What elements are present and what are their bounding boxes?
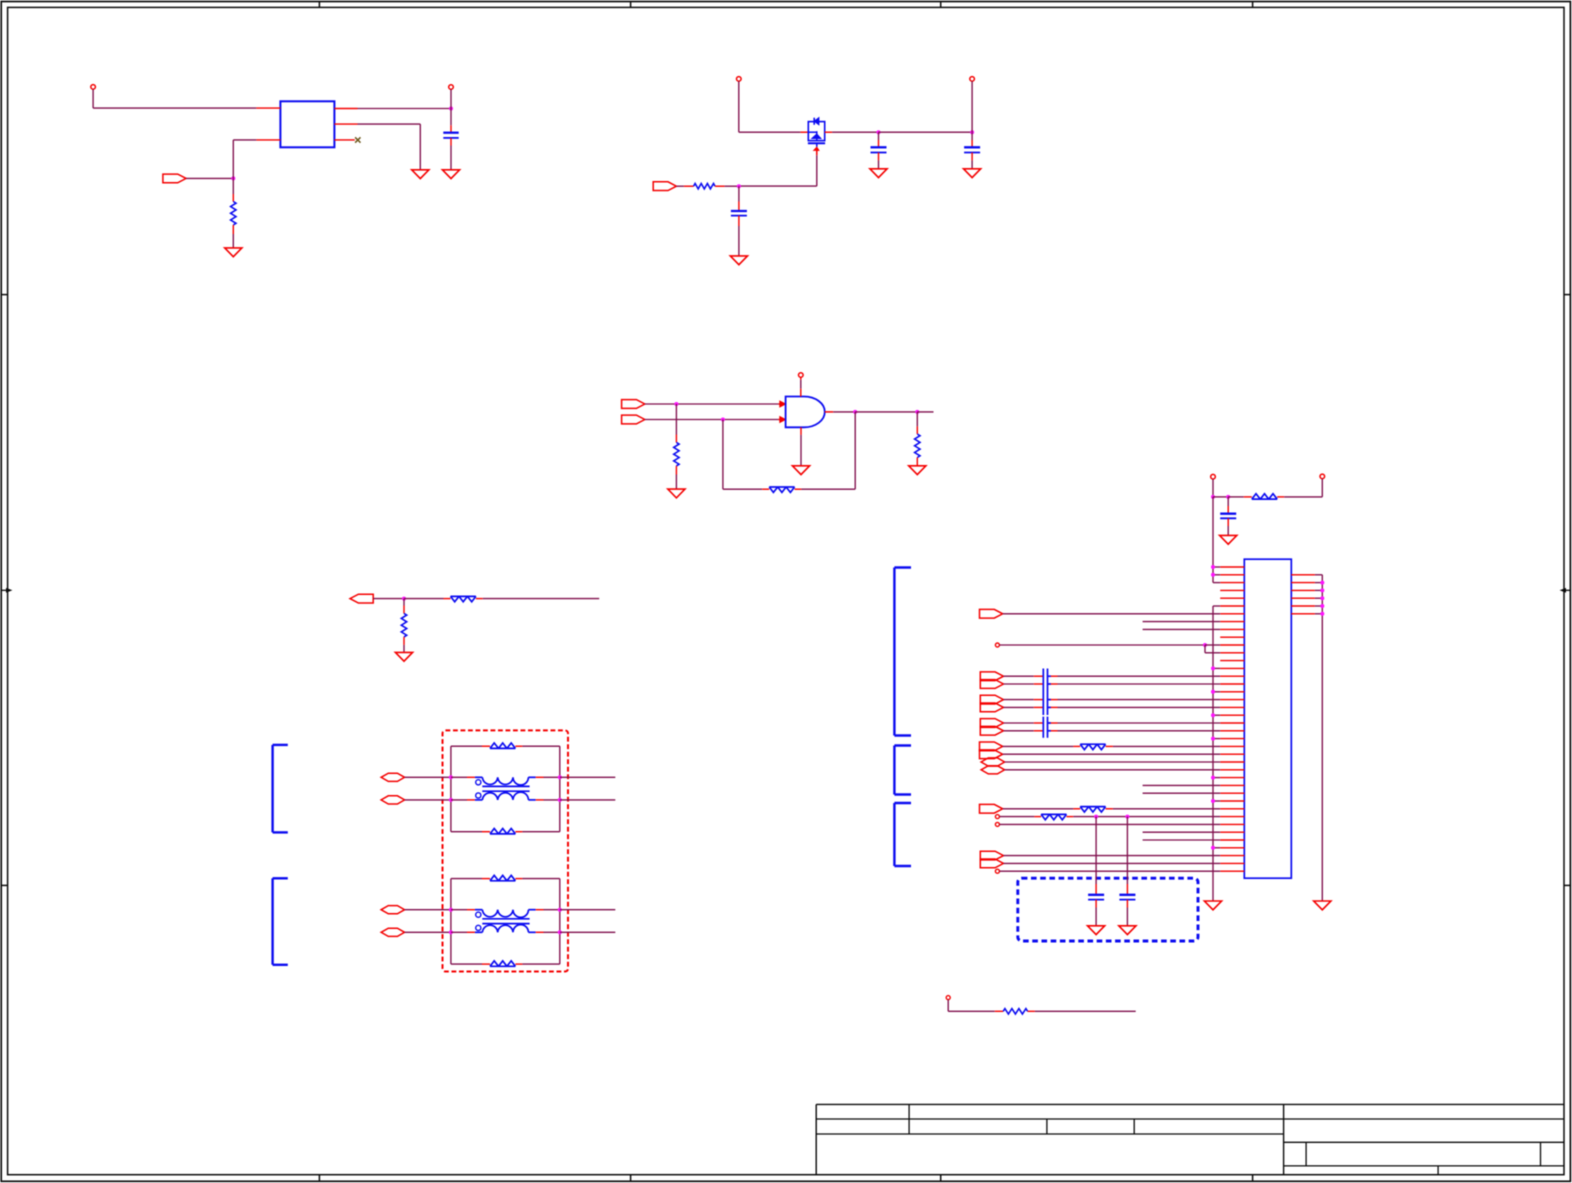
junction dots right rail (1320, 581, 1324, 616)
input port N31 (980, 804, 1003, 813)
input port pair N15 (980, 680, 1003, 689)
junction dots ground bus (1211, 666, 1215, 849)
wire N18 coupled (1004, 706, 1221, 708)
wire T2 top loop (451, 878, 490, 880)
input port S1 (622, 400, 645, 409)
ferrite bead FB3 (1228, 494, 1284, 499)
connector J1 body (1244, 559, 1291, 878)
capacitor C8 (1088, 817, 1104, 926)
capacitor C5 (1220, 497, 1236, 536)
node S2 junction (721, 418, 725, 422)
and gate U2 (786, 397, 825, 428)
input port N6 (980, 609, 1003, 618)
wire T2 right stub A (544, 909, 560, 911)
wire N40 down (948, 1000, 995, 1012)
resistor R6 (995, 1009, 1035, 1014)
node T1 AR (558, 775, 562, 779)
wires right rail taps (1315, 583, 1322, 614)
wire U2 output (825, 411, 855, 413)
wire N26 (1005, 769, 1221, 771)
node R4 junction (915, 410, 919, 414)
J1 right pin stubs (1291, 575, 1315, 614)
series capacitor bank C7 plates (1043, 717, 1047, 738)
wire T2 top loop b (515, 878, 559, 880)
power port P1 (91, 85, 96, 109)
U1 pin out stub (334, 108, 357, 110)
series capacitor bank C6 plates (1043, 669, 1047, 716)
bidir port N25 (981, 758, 1005, 766)
node T2 AR (558, 908, 562, 912)
ferrite bead T1 T (490, 747, 515, 749)
wire T1 bottom loop (451, 831, 490, 833)
input port pair N17 (980, 695, 1003, 704)
ground C2 (870, 169, 887, 178)
wire N17 coupled (1004, 699, 1221, 701)
wire N39 (999, 870, 1220, 872)
Q1 gate arrow (739, 147, 819, 186)
wire N15 coupled (1004, 683, 1221, 685)
input port pair N18 (980, 703, 1003, 712)
U2 power pin (799, 373, 804, 397)
wire P3 to Q1 (739, 131, 809, 133)
wire N28 (1143, 784, 1221, 786)
title block (816, 1104, 1564, 1174)
U1 pin 2 stub (256, 139, 280, 141)
wire T1 out A (560, 776, 616, 778)
input port S2 (622, 415, 645, 424)
ground C3 (964, 169, 981, 178)
power port P5 (1211, 474, 1216, 496)
wire EN1 (186, 177, 233, 179)
wire OUT end (917, 411, 933, 413)
wire T1 A (405, 776, 451, 778)
wire N8 (1143, 628, 1221, 630)
wire N29 (1143, 792, 1221, 794)
wire N38 (1004, 862, 1221, 864)
wire T1 left rail (450, 746, 452, 832)
wire T1 top loop (451, 745, 490, 747)
U1 pin nc stub (334, 139, 354, 141)
wire D_OUT (373, 598, 404, 600)
wire N7 (1143, 621, 1221, 623)
wire N10 to pin 11 (1205, 644, 1220, 646)
wire T1 left stub B (451, 799, 467, 801)
node N32 cap1 junction (1094, 815, 1098, 819)
node T2 BR (558, 930, 562, 934)
U2 input pin 2 (778, 417, 785, 423)
node T2 BL (449, 930, 453, 934)
power port P4 (970, 77, 975, 133)
mosfet Q1 (808, 118, 825, 147)
wire T1 out B (560, 799, 616, 801)
ferrite bead FB4 (1003, 744, 1220, 749)
resistor R2 (676, 184, 739, 189)
blue bracket BR3 (894, 803, 911, 866)
input port pair N38 (980, 859, 1003, 868)
hex port T2 B (381, 928, 405, 936)
resistor R4 (915, 412, 920, 466)
ground right rail (1314, 901, 1331, 910)
node T1 BL (449, 798, 453, 802)
wire S2 to gate (645, 419, 779, 421)
ground C9 (1119, 926, 1136, 935)
wire T2 right rail (559, 879, 561, 965)
net circle N32 (995, 815, 999, 819)
node rail i1 (1211, 573, 1215, 577)
wire N25 (1005, 761, 1221, 763)
wire N37 (1004, 855, 1221, 857)
wire T2 out B (560, 931, 616, 933)
red dashed box transformer module (443, 730, 569, 971)
wires bus taps (1213, 668, 1220, 847)
wire N6 (1003, 613, 1220, 615)
power port P3 (737, 77, 742, 133)
node P5 junction (1211, 495, 1215, 499)
wire T2 left stub A (451, 909, 467, 911)
U1 pin mid stub (334, 123, 357, 125)
wire N33 (999, 823, 1220, 825)
resistor R3 (674, 404, 679, 489)
wire T2 out A (560, 909, 616, 911)
wire power rail left (1213, 497, 1220, 583)
J1 left pin stubs 1-40 (1220, 567, 1244, 871)
capacitor C4 (731, 186, 747, 256)
wire T2 left rail (450, 879, 452, 965)
wire N10 (999, 644, 1205, 646)
input port N24 (980, 750, 1003, 759)
wire N21 coupled (1004, 730, 1221, 732)
wire N35 (1143, 839, 1221, 841)
node T1 AL (449, 775, 453, 779)
wire T2 bottom loop (451, 963, 490, 965)
ground C5 (1220, 535, 1237, 544)
input port pair N14 (980, 672, 1003, 681)
ground C1 (442, 170, 459, 179)
net circle N40 (946, 996, 950, 1000)
ground C4 (730, 256, 747, 265)
node gate junction (737, 184, 741, 188)
ground R5 (395, 652, 412, 661)
wire bus to pin 6 (1213, 605, 1220, 607)
wire T2 A (405, 909, 451, 911)
U1 pin 1 stub (256, 107, 280, 109)
wire T1 right rail (559, 746, 561, 832)
transformer T1 (467, 777, 544, 800)
hex port T1 A (381, 773, 405, 781)
wire P5 to C5 (1213, 496, 1228, 498)
wire FB2 end (483, 598, 599, 600)
node VOUT junction (449, 107, 453, 111)
node EN1 junction (231, 176, 235, 180)
ferrite bead FB5 (1003, 807, 1220, 812)
node C5 junction (1226, 495, 1230, 499)
wire T2 left stub B (451, 931, 467, 933)
input port EN1 (163, 174, 186, 183)
ferrite bead T2 B (490, 965, 515, 967)
power port P2 (449, 85, 454, 109)
ferrite bead T1 B (490, 833, 515, 835)
output port D_OUT (350, 594, 373, 603)
wire U1 out to node (358, 108, 452, 110)
power port P6 (1320, 474, 1325, 497)
wire N14 coupled (1004, 675, 1221, 677)
ground U1 mid (412, 170, 429, 179)
node T2 AL (449, 908, 453, 912)
ground R1 (225, 248, 242, 257)
input port EN2 (653, 182, 676, 191)
wire N10 jog to pin 12 (1205, 645, 1220, 653)
input port N23 (980, 742, 1003, 751)
blue bracket BT1 (273, 745, 288, 833)
wire Q1 drain (825, 131, 879, 133)
wire node D1 to D2 (879, 131, 973, 133)
capacitor C9 (1119, 817, 1135, 926)
input port pair N21 (980, 726, 1003, 735)
net circle N33 (995, 822, 999, 826)
wire T1 top loop b (515, 745, 559, 747)
wire right rail (1315, 575, 1322, 901)
wire U1 mid to ground (358, 124, 421, 170)
wire T1 bottom loop b (515, 831, 559, 833)
wire T2 right stub B (544, 931, 560, 933)
capacitor C2 (871, 132, 887, 169)
no-connect X on U1 (355, 137, 360, 142)
node D_OUT junction (402, 597, 406, 601)
input port pair N37 (980, 851, 1003, 860)
U2 input pin 1 (778, 401, 785, 407)
ground C8 (1088, 926, 1105, 935)
wire T1 left stub A (451, 776, 467, 778)
wire OUT to R4 (855, 411, 917, 413)
wire T2 B (405, 931, 451, 933)
node D2 junction (970, 130, 974, 134)
wire FB3 to P6 (1284, 496, 1322, 498)
resistor R1 (231, 178, 236, 248)
resistor R5 (401, 599, 406, 653)
U2 ground pin (800, 427, 802, 466)
node S1 junction (674, 402, 678, 406)
wire EN1 to U1 pin2 (233, 140, 256, 179)
ground R3 (668, 489, 685, 498)
node OUT junction (853, 410, 857, 414)
bidir port N26 (981, 766, 1005, 774)
wire P1 to U1 (93, 107, 256, 109)
node rail i0 (1211, 565, 1215, 569)
capacitor C1 (443, 109, 458, 170)
input port pair N20 (980, 719, 1003, 728)
net circle N10 (995, 643, 999, 647)
ferrite bead FB2 (404, 596, 483, 601)
wire N20 coupled (1004, 722, 1221, 724)
ground U2 (792, 466, 809, 475)
blue bracket BT2 (273, 878, 288, 965)
net circle N39 (995, 869, 999, 873)
sheet center mark right (1561, 589, 1570, 592)
wire T1 right stub B (544, 799, 560, 801)
feedback loop wire (723, 420, 762, 490)
node N10 junction (1203, 643, 1207, 647)
wire N34 (1143, 831, 1221, 833)
wire ground bus left (1212, 606, 1214, 901)
hex port T2 A (381, 906, 405, 914)
blue dashed box filter (1018, 878, 1198, 941)
node N32 cap2 junction (1125, 815, 1129, 819)
hex port T1 B (381, 796, 405, 804)
node D1 junction (877, 130, 881, 134)
wire T2 bottom loop b (515, 963, 559, 965)
regulator U1 (280, 101, 334, 147)
wire T1 B (405, 799, 451, 801)
blue bracket BR1 (894, 568, 911, 736)
ferrite bead FB6 (999, 814, 1220, 819)
ferrite bead FB1 (762, 487, 801, 492)
wire FB1 to OUT (801, 412, 855, 489)
node T1 BR (558, 798, 562, 802)
ferrite bead T2 T (490, 880, 515, 882)
ground R4 (909, 466, 926, 475)
blue bracket BR2 (894, 746, 911, 795)
wire S1 to gate (645, 403, 779, 405)
wire T1 right stub A (544, 776, 560, 778)
wire N24 (1003, 753, 1220, 755)
wire R6 end (1035, 1010, 1136, 1012)
ground bus left (1204, 901, 1221, 910)
capacitor C3 (964, 132, 980, 169)
transformer T2 (467, 910, 544, 933)
sheet center mark left (1, 589, 11, 592)
